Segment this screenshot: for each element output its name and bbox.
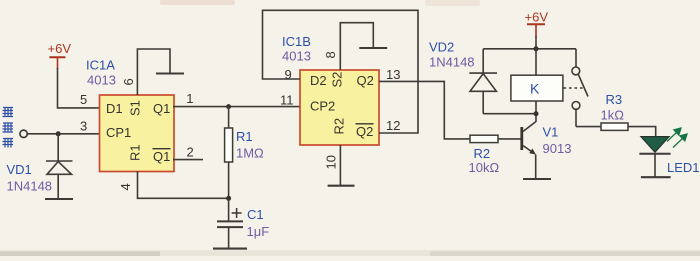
svg-text:10: 10 <box>324 155 339 169</box>
svg-text:LED1: LED1 <box>667 160 700 175</box>
wire: +6V rail down and right to pin 5 of IC1A <box>58 68 100 108</box>
svg-text:Q2: Q2 <box>356 124 373 139</box>
ground (VD1) <box>45 198 73 200</box>
svg-text:1μF: 1μF <box>247 224 270 239</box>
ground (LED1) <box>641 176 671 178</box>
svg-text:1kΩ: 1kΩ <box>601 108 625 123</box>
svg-text:Q2: Q2 <box>357 73 374 88</box>
resistor R2 <box>470 135 498 142</box>
junction at top of R1 <box>226 104 231 109</box>
wire: touch terminal to pin 3 of IC1A <box>27 133 99 135</box>
wire: +6V down to top rail <box>535 36 537 49</box>
wire: pin 4 (R1 reset) down and right to R1/C1 node <box>138 171 229 198</box>
svg-text:S2: S2 <box>330 72 345 88</box>
svg-text:R2: R2 <box>332 118 347 135</box>
svg-text:R2: R2 <box>474 146 491 161</box>
relay contact switch <box>564 49 589 127</box>
junction node at VD1 <box>56 131 61 136</box>
ground (emitter V1) <box>523 178 551 180</box>
wire: R2 to base of V1 <box>498 138 521 140</box>
diode VD2 (flyback) <box>469 49 497 114</box>
svg-text:R1: R1 <box>236 129 253 144</box>
svg-text:1MΩ: 1MΩ <box>236 146 264 161</box>
svg-text:+6V: +6V <box>525 10 549 25</box>
svg-text:CP2: CP2 <box>310 99 335 114</box>
svg-text:13: 13 <box>386 67 400 82</box>
svg-text:10kΩ: 10kΩ <box>469 160 500 175</box>
svg-text:+6V: +6V <box>48 41 72 56</box>
svg-text:4: 4 <box>118 183 133 190</box>
wire: pin 6 (S1) to ground <box>137 49 170 95</box>
diode VD1 <box>46 134 73 199</box>
ground (S2 pin 8) <box>359 47 387 49</box>
svg-text:1: 1 <box>186 91 193 106</box>
wire: Q2 (pin 13) to R2 <box>379 81 470 138</box>
svg-text:5: 5 <box>80 92 87 107</box>
svg-text:Q1: Q1 <box>153 101 170 116</box>
touch terminal label 触摸端 (hand-drawn CJK strokes) <box>3 107 14 148</box>
svg-text:VD1: VD1 <box>7 162 32 177</box>
svg-text:V1: V1 <box>543 125 559 140</box>
svg-text:CP1: CP1 <box>106 125 131 140</box>
resistor R3 <box>601 123 628 130</box>
svg-text:11: 11 <box>280 92 294 107</box>
svg-text:9013: 9013 <box>543 141 572 156</box>
svg-text:Q1: Q1 <box>153 149 170 164</box>
wire: pin 10 (R2 reset) to ground <box>339 145 341 186</box>
flip-flop IC1A body <box>100 95 175 172</box>
svg-text:4013: 4013 <box>87 73 116 88</box>
svg-text:IC1A: IC1A <box>86 58 115 73</box>
junction R1/C1/pin4 <box>226 196 231 201</box>
svg-text:K: K <box>530 81 540 97</box>
ground (C1) <box>213 248 247 250</box>
flip-flop IC1B body <box>300 70 379 145</box>
wire: R3 to LED1 <box>628 127 656 137</box>
junction +6V on top rail <box>534 46 539 51</box>
LED1 diode <box>639 137 670 178</box>
+6V supply (right) <box>525 10 549 38</box>
svg-text:4013: 4013 <box>282 49 311 64</box>
svg-text:R1: R1 <box>128 144 143 161</box>
svg-text:C1: C1 <box>247 207 264 222</box>
wire: pin 8 (S2) to ground <box>340 23 373 70</box>
wire: feedback Q2bar (pin 12) over the top to D2 (pin 9) <box>263 10 419 133</box>
svg-text:D2: D2 <box>310 73 327 88</box>
wire: Q1 (pin 1) to CP2 (pin 11) <box>173 106 300 108</box>
ground (S1 pin 6) <box>156 72 184 74</box>
svg-text:6: 6 <box>121 78 136 85</box>
svg-text:S1: S1 <box>128 100 143 116</box>
svg-text:12: 12 <box>386 118 400 133</box>
svg-text:8: 8 <box>323 51 338 58</box>
relay K coil <box>511 49 563 114</box>
svg-text:1N4148: 1N4148 <box>429 55 475 70</box>
svg-text:IC1B: IC1B <box>282 34 311 49</box>
LED emission arrows <box>667 128 687 148</box>
wire: switch to R3 <box>576 126 601 128</box>
wire: VD2 anode to collector node <box>483 113 536 115</box>
touch input terminal circle <box>20 130 27 137</box>
svg-text:2: 2 <box>187 145 194 160</box>
svg-text:1N4148: 1N4148 <box>7 179 53 194</box>
wire: pin 2 stub <box>173 159 203 161</box>
+6V supply (left) <box>48 41 72 69</box>
junction collector / relay / VD2 <box>534 111 539 116</box>
wire: top rail VD2/relay/switch <box>483 48 576 50</box>
resistor R1 <box>225 107 233 199</box>
svg-text:D1: D1 <box>106 101 123 116</box>
svg-text:VD2: VD2 <box>429 40 454 55</box>
transistor V1 (9013 NPN) <box>522 114 536 179</box>
svg-text:3: 3 <box>80 119 87 134</box>
capacitor C1 (electrolytic) <box>217 198 243 248</box>
svg-text:R3: R3 <box>606 92 623 107</box>
ground (pin 10) <box>328 185 355 187</box>
svg-text:9: 9 <box>285 67 292 82</box>
